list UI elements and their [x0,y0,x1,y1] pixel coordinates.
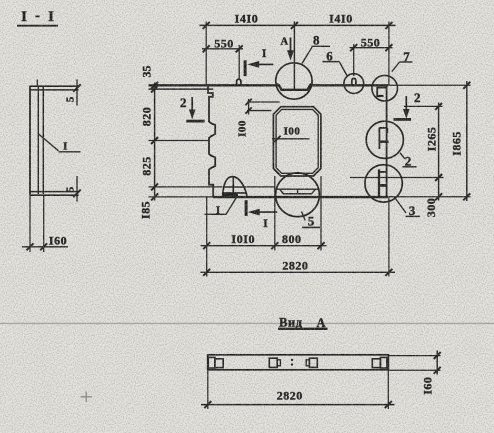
section cut I bottom: bar, arrow, label [245,200,248,216]
section I-I: bottom flange double line [30,191,79,193]
opening: octagon inner contour [276,109,318,173]
dim 1410+1410: extension lines [205,22,207,86]
dim 5 bottom: stub line and slash tick [76,176,78,202]
label 8: leader and shelf [302,46,313,63]
dim 1265 label [425,127,439,152]
detail 1: filled band [223,193,238,197]
section cut 2 right: label, arrow, bar, extension [414,90,421,105]
dim 100 vertical label [237,120,249,137]
dim 2820 (plan) label [282,259,308,273]
label 6 [326,49,333,64]
dim 100 horizontal: line, tick [272,138,310,140]
circle 5 detail [276,173,320,217]
faint scan fold line [0,322,494,324]
view A dim 2820: dimension line with ticks [201,404,395,406]
plan: bottom edge extension to left chain [149,196,214,198]
detail 1: horizontal line lower [223,192,247,194]
view A: embedded plate detail d4 [372,359,380,368]
view A: embedded plate detail d2 [269,358,277,367]
section I-I: left edge of panel strip [29,86,31,195]
dim 2820 (plan): dimension line with ticks [201,271,396,273]
lifting loop right (plan) [352,78,356,85]
dim 160: dimension line with slash ticks [22,246,68,248]
label 3 [409,203,416,218]
section I-I: top flange double line [30,85,79,87]
section I-I: right edge of panel strip [42,87,44,194]
registration cross mark [81,392,93,403]
view direction arrow A (top) [281,37,289,48]
view A title [279,316,325,330]
circle 8 center line [293,22,295,92]
title I - I [21,8,54,25]
circle 3: embedded profile [378,170,380,197]
dim 550 left label [214,36,234,50]
leader for detail 1 in section I-I [39,134,59,151]
label 5: leader and underline [302,212,306,221]
title underline [17,25,58,27]
detail 1: hatched dome on bottom edge [223,177,247,197]
left chain slash ticks [151,82,158,89]
section cut I top: bar, arrow, label [244,60,247,76]
label 5 [308,214,315,229]
dim 550 right: extension, line, ticks [353,44,355,76]
plan: ledge line between detail 1 and circle 5 [247,186,275,188]
circle 7: embedded angle profile [376,87,386,89]
dim 1865 label [450,131,464,156]
section I-I: extension stub above top [36,80,38,87]
label 7: shelf and leader [400,61,413,63]
circle 3 detail [365,165,402,202]
view A: embedded plate detail d1 [208,357,215,368]
dim 300 label [424,198,438,218]
dim 100 vertical: lines, ticks [247,101,280,103]
dim 100 horizontal label [284,125,301,137]
dim 1410 left label [235,12,259,26]
section I-I: inner face line [37,87,39,194]
label 2 (detail) [405,153,412,168]
dim 160: extension lines [29,196,31,253]
section cut 2 left: label, arrow, bar [180,95,187,110]
dim 1010 label [231,232,255,246]
view A title underline [278,328,328,330]
dim 5 bottom label [65,186,77,192]
dim 1865: dimension line [466,81,468,201]
lifting loop left (plan) [237,79,241,85]
circle 2 detail [366,121,403,158]
label 2 (detail): leader and shelf [400,153,405,159]
plan: recess lip right [310,83,313,85]
dim 800 label [282,232,302,246]
left dimension chain: dim line [154,83,156,201]
circle 7 detail [372,75,398,101]
view A dim 2820: extension lines [207,370,209,409]
dim 1265/300: dimension line [438,103,440,201]
label 1 (section I-I) [63,141,67,153]
plan: recess lip left [276,83,279,85]
bottom dims: extension lines [206,197,208,276]
dim 1410 right label [329,12,353,26]
view A dim 160: extension lines [389,355,441,357]
plan: ledge line left portion [149,186,223,188]
dim 1410+1410: dimension line with ticks [200,24,396,26]
plan: 35 step line at top left [149,88,214,90]
plan: right edge [386,85,388,197]
plan: ledge extension line right (300 dim) [350,177,444,179]
left chain extension at 140.5 [149,140,209,142]
label 7 [403,49,410,64]
dim 160 label [49,234,67,248]
detail 1: label I [216,204,220,216]
detail 1: center line [232,177,234,197]
circle 8 detail [276,63,312,99]
label 8 [313,32,320,47]
circle 2: embedded profile [378,128,380,149]
dim 550 right label [361,35,381,49]
plan: left edge with keyway notches [208,85,215,197]
view A dim 2820 label [277,389,303,403]
detail 1: leader [205,197,238,215]
dim 5 top label [65,96,77,102]
circle 5: center tick [297,189,299,194]
left chain labels 35/820/825/185 (rotated) [139,66,154,220]
view A dim 160: dimension line with ticks [436,351,438,375]
view A: panel strip outline [208,355,389,370]
dim 550 left: extension, line, ticks [238,45,240,79]
detail 1: horizontal line upper [223,186,247,188]
label 3: leader and shelf [394,197,406,214]
circle 5: groove profile [280,189,316,194]
view A: embedded plate detail d3 [306,360,309,366]
view A: center colon marks [291,359,293,361]
view A dim 160 label [420,377,434,395]
dim 1010+800: dimension line with ticks [201,245,327,247]
label 6: shelf and leader [323,61,340,63]
right dims: extensions [389,84,471,86]
opening: octagon outer contour [273,107,321,176]
circle 6 detail [344,74,364,94]
plan: bottom edge [213,196,389,198]
dim 5 top: stub line and slash tick [76,80,78,106]
plan: top edge with recess under circle 8 [149,85,389,90]
circle 5: chord line [277,188,319,190]
